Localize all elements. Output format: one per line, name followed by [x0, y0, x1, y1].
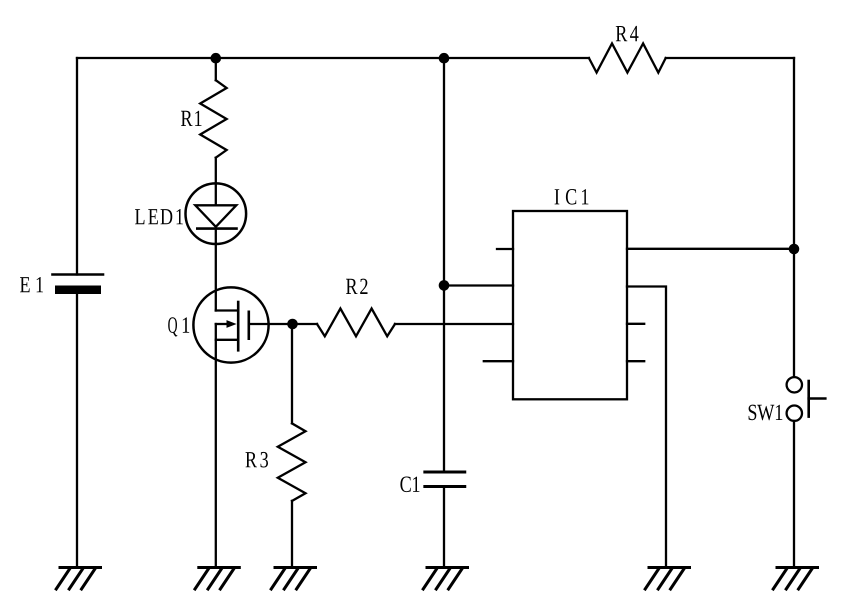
LED LED1	[186, 183, 247, 244]
wire: R3 to ground	[291, 501, 293, 568]
wire top bus: left corner to R4	[77, 57, 589, 59]
node: R3 label	[246, 452, 269, 468]
junction: right rail / IC1 output	[789, 244, 800, 255]
node: R4 label	[616, 26, 639, 41]
wire: top bus to R1	[215, 58, 217, 80]
junction: top bus / R1 branch	[211, 53, 222, 64]
resistor R2	[317, 309, 395, 337]
wire middle rail: top bus down to C1	[443, 58, 445, 472]
junction: top bus / middle rail	[439, 53, 450, 64]
pin stub: IC1 right pin 3	[627, 323, 644, 325]
node: Q1 label	[168, 317, 189, 336]
capacitor C1	[425, 472, 465, 487]
node: E1 label	[20, 277, 43, 292]
wire: SW1 to ground	[793, 421, 795, 568]
wire: IC1 right pin 2 to ground rail	[627, 287, 666, 568]
pin stub: IC1 left pin 1	[497, 248, 513, 250]
ground (R3)	[271, 568, 315, 590]
wire: junction to IC1 left pin 2	[444, 284, 513, 286]
wire: LED1 cathode to Q1 drain	[215, 244, 217, 311]
ground (Q1 source)	[195, 568, 239, 590]
node: R2 label	[346, 279, 368, 294]
ground (SW1)	[773, 568, 817, 590]
transistor Q1 (N-MOSFET)	[193, 287, 268, 362]
node: C1 label	[400, 477, 419, 493]
wire: IC1 right pin 1 to right rail	[627, 248, 794, 250]
node: SW1 label	[749, 405, 783, 421]
pin stub: IC1 left pin 4	[484, 360, 513, 362]
wire: R1 to LED1	[215, 158, 217, 184]
battery E1	[53, 275, 104, 295]
resistor R4	[589, 44, 666, 73]
ground (C1)	[423, 568, 467, 590]
node: R1 label	[181, 111, 202, 126]
ground (battery)	[56, 568, 100, 590]
wire: R3 branch down from gate junction	[291, 324, 293, 423]
wire left rail: top corner down to battery +	[76, 58, 78, 275]
switch SW1 (pushbutton)	[787, 377, 826, 421]
resistor R3	[278, 423, 306, 501]
IC IC1 body	[513, 211, 627, 399]
resistor R1	[200, 80, 226, 158]
wire: Q1 source down to ground	[215, 324, 217, 568]
pin stub: IC1 right pin 4	[627, 360, 644, 362]
node: LED1 label	[135, 209, 183, 224]
wire: battery - down to ground	[76, 294, 78, 568]
wire: C1 to ground	[443, 487, 445, 568]
wire right rail: top bus down to SW1	[793, 58, 795, 377]
ground (IC1)	[645, 568, 689, 590]
node: IC1 label	[555, 189, 589, 205]
wire top bus: R4 to right corner	[666, 57, 794, 59]
wire: Q1 gate to junction	[249, 323, 293, 325]
junction: gate / R2 / R3	[287, 319, 298, 330]
junction: middle rail / IC1 pin wire	[439, 280, 450, 291]
wire: junction to R2	[293, 323, 318, 325]
wire: R2 to IC1 pin (crosses middle rail)	[395, 323, 513, 325]
